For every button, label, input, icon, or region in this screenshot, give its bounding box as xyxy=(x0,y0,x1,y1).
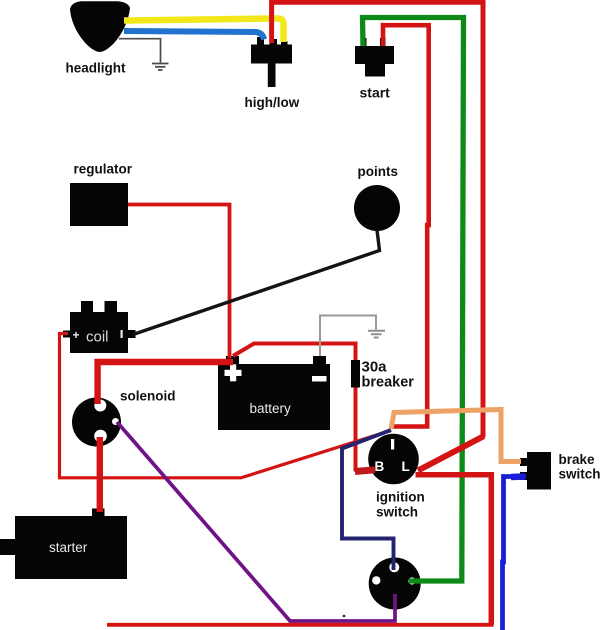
wire: purple solenoid to lamp bottom xyxy=(117,422,395,621)
battery xyxy=(218,356,330,430)
ignition switch SW3 xyxy=(368,434,425,520)
wire: red top loop high/low to ignition L drop xyxy=(272,2,483,437)
high/low switch SW1 xyxy=(245,37,300,110)
svg-text:battery: battery xyxy=(250,401,292,416)
wire: red feed stub into ignition B xyxy=(355,470,375,472)
wire: thick red drop to ignition L xyxy=(418,436,484,471)
wire: blue headlight to high/low left prong xyxy=(124,31,264,40)
wire: thick red solenoid bottom to starter xyxy=(97,437,103,512)
solenoid xyxy=(72,389,176,447)
wire: red battery + to 30a breaker line xyxy=(233,344,356,472)
wire: yellow headlight to high/low right prong xyxy=(124,19,284,43)
svg-text:L: L xyxy=(402,459,410,474)
svg-text:starter: starter xyxy=(49,540,88,555)
wire: navy ignition junction to lamp top xyxy=(342,430,394,570)
wire: red start switch right prong to ignition junction xyxy=(383,25,429,426)
wire: orange ignition junction to brake switch xyxy=(391,410,521,462)
wire: thin red coil + to ignition junction xyxy=(60,334,392,478)
wire: blue arrow thick at brake tab xyxy=(511,473,525,480)
svg-text:30a: 30a xyxy=(362,359,388,376)
svg-text:solenoid: solenoid xyxy=(120,389,176,404)
wire: black headlight ground lead xyxy=(119,39,161,63)
svg-text:regulator: regulator xyxy=(74,162,133,177)
ground symbol (battery) xyxy=(368,331,385,338)
wire: red ignition L to bottom rail xyxy=(416,475,492,625)
wire: green start switch loop to lower lamp xyxy=(363,18,464,582)
wire: blue brake switch to bottom edge xyxy=(503,477,527,630)
stray mark xyxy=(343,615,346,618)
points xyxy=(354,164,400,231)
start switch SW2 xyxy=(355,38,394,101)
brake switch SW4 xyxy=(520,452,600,490)
wire: thick red battery + to solenoid top xyxy=(98,362,233,404)
svg-text:switch: switch xyxy=(376,505,418,520)
regulator xyxy=(70,162,133,227)
svg-text:B: B xyxy=(375,459,385,474)
svg-text:+: + xyxy=(73,328,80,342)
ground symbol (headlight) xyxy=(152,64,169,71)
svg-text:points: points xyxy=(358,164,399,179)
wire: red bottom rail xyxy=(107,623,494,627)
wire: black points to coil - xyxy=(133,230,380,335)
svg-text:start: start xyxy=(360,85,391,101)
svg-text:coil: coil xyxy=(86,329,109,346)
headlight xyxy=(66,1,131,75)
svg-text:switch: switch xyxy=(559,467,600,482)
svg-text:headlight: headlight xyxy=(66,61,127,76)
svg-text:brake: brake xyxy=(559,452,596,467)
svg-text:breaker: breaker xyxy=(362,375,415,391)
svg-text:ignition: ignition xyxy=(376,490,425,505)
wire: red regulator to battery + xyxy=(128,205,230,359)
starter M1 xyxy=(0,509,127,580)
svg-text:high/low: high/low xyxy=(245,95,300,110)
wire: grey battery - to ground xyxy=(320,316,376,357)
30a breaker CB1 xyxy=(351,359,414,391)
coil xyxy=(63,301,136,353)
accessory circle (lower lamp) xyxy=(369,558,421,610)
